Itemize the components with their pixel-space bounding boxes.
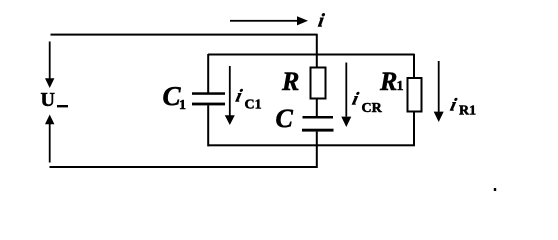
wire outer top	[51, 34, 318, 36]
label iCR	[351, 89, 383, 116]
svg-text:C1: C1	[245, 98, 262, 113]
capacitor C	[302, 116, 334, 132]
wire C1 branch upper	[207, 54, 209, 93]
svg-text:U: U	[41, 89, 55, 111]
svg-text:CR: CR	[362, 101, 383, 116]
label minus	[57, 105, 68, 107]
wire R1 branch upper	[413, 54, 415, 78]
svg-text:C: C	[276, 104, 294, 133]
voltage source U arrow down	[45, 42, 54, 89]
svg-text:R: R	[379, 67, 397, 96]
svg-text:R1: R1	[459, 104, 476, 119]
label iR1	[449, 95, 477, 119]
voltage source U arrow up	[45, 115, 54, 163]
current arrow iCR	[341, 63, 351, 128]
capacitor C1	[192, 92, 225, 105]
label iC1	[234, 86, 262, 113]
wire RC branch top vertical	[316, 34, 318, 68]
resistor R1	[408, 78, 422, 112]
wire R1 branch lower	[413, 112, 415, 146]
wire between R and C	[316, 99, 318, 117]
label C1	[163, 81, 187, 113]
wire outer bottom	[50, 166, 318, 168]
current arrow iC1	[225, 66, 235, 125]
resistor R	[311, 68, 326, 99]
wire below C to bottom	[316, 132, 318, 168]
svg-text:1: 1	[397, 79, 404, 94]
label R1	[379, 67, 404, 96]
svg-text:1: 1	[179, 98, 186, 113]
stray dot	[494, 188, 496, 191]
wire inner box bottom	[208, 144, 415, 146]
wire C1 branch lower	[207, 105, 209, 146]
wire inner box top	[208, 54, 415, 56]
current arrow iR1	[434, 61, 444, 122]
svg-text:R: R	[281, 67, 299, 96]
current arrow i	[230, 16, 308, 25]
